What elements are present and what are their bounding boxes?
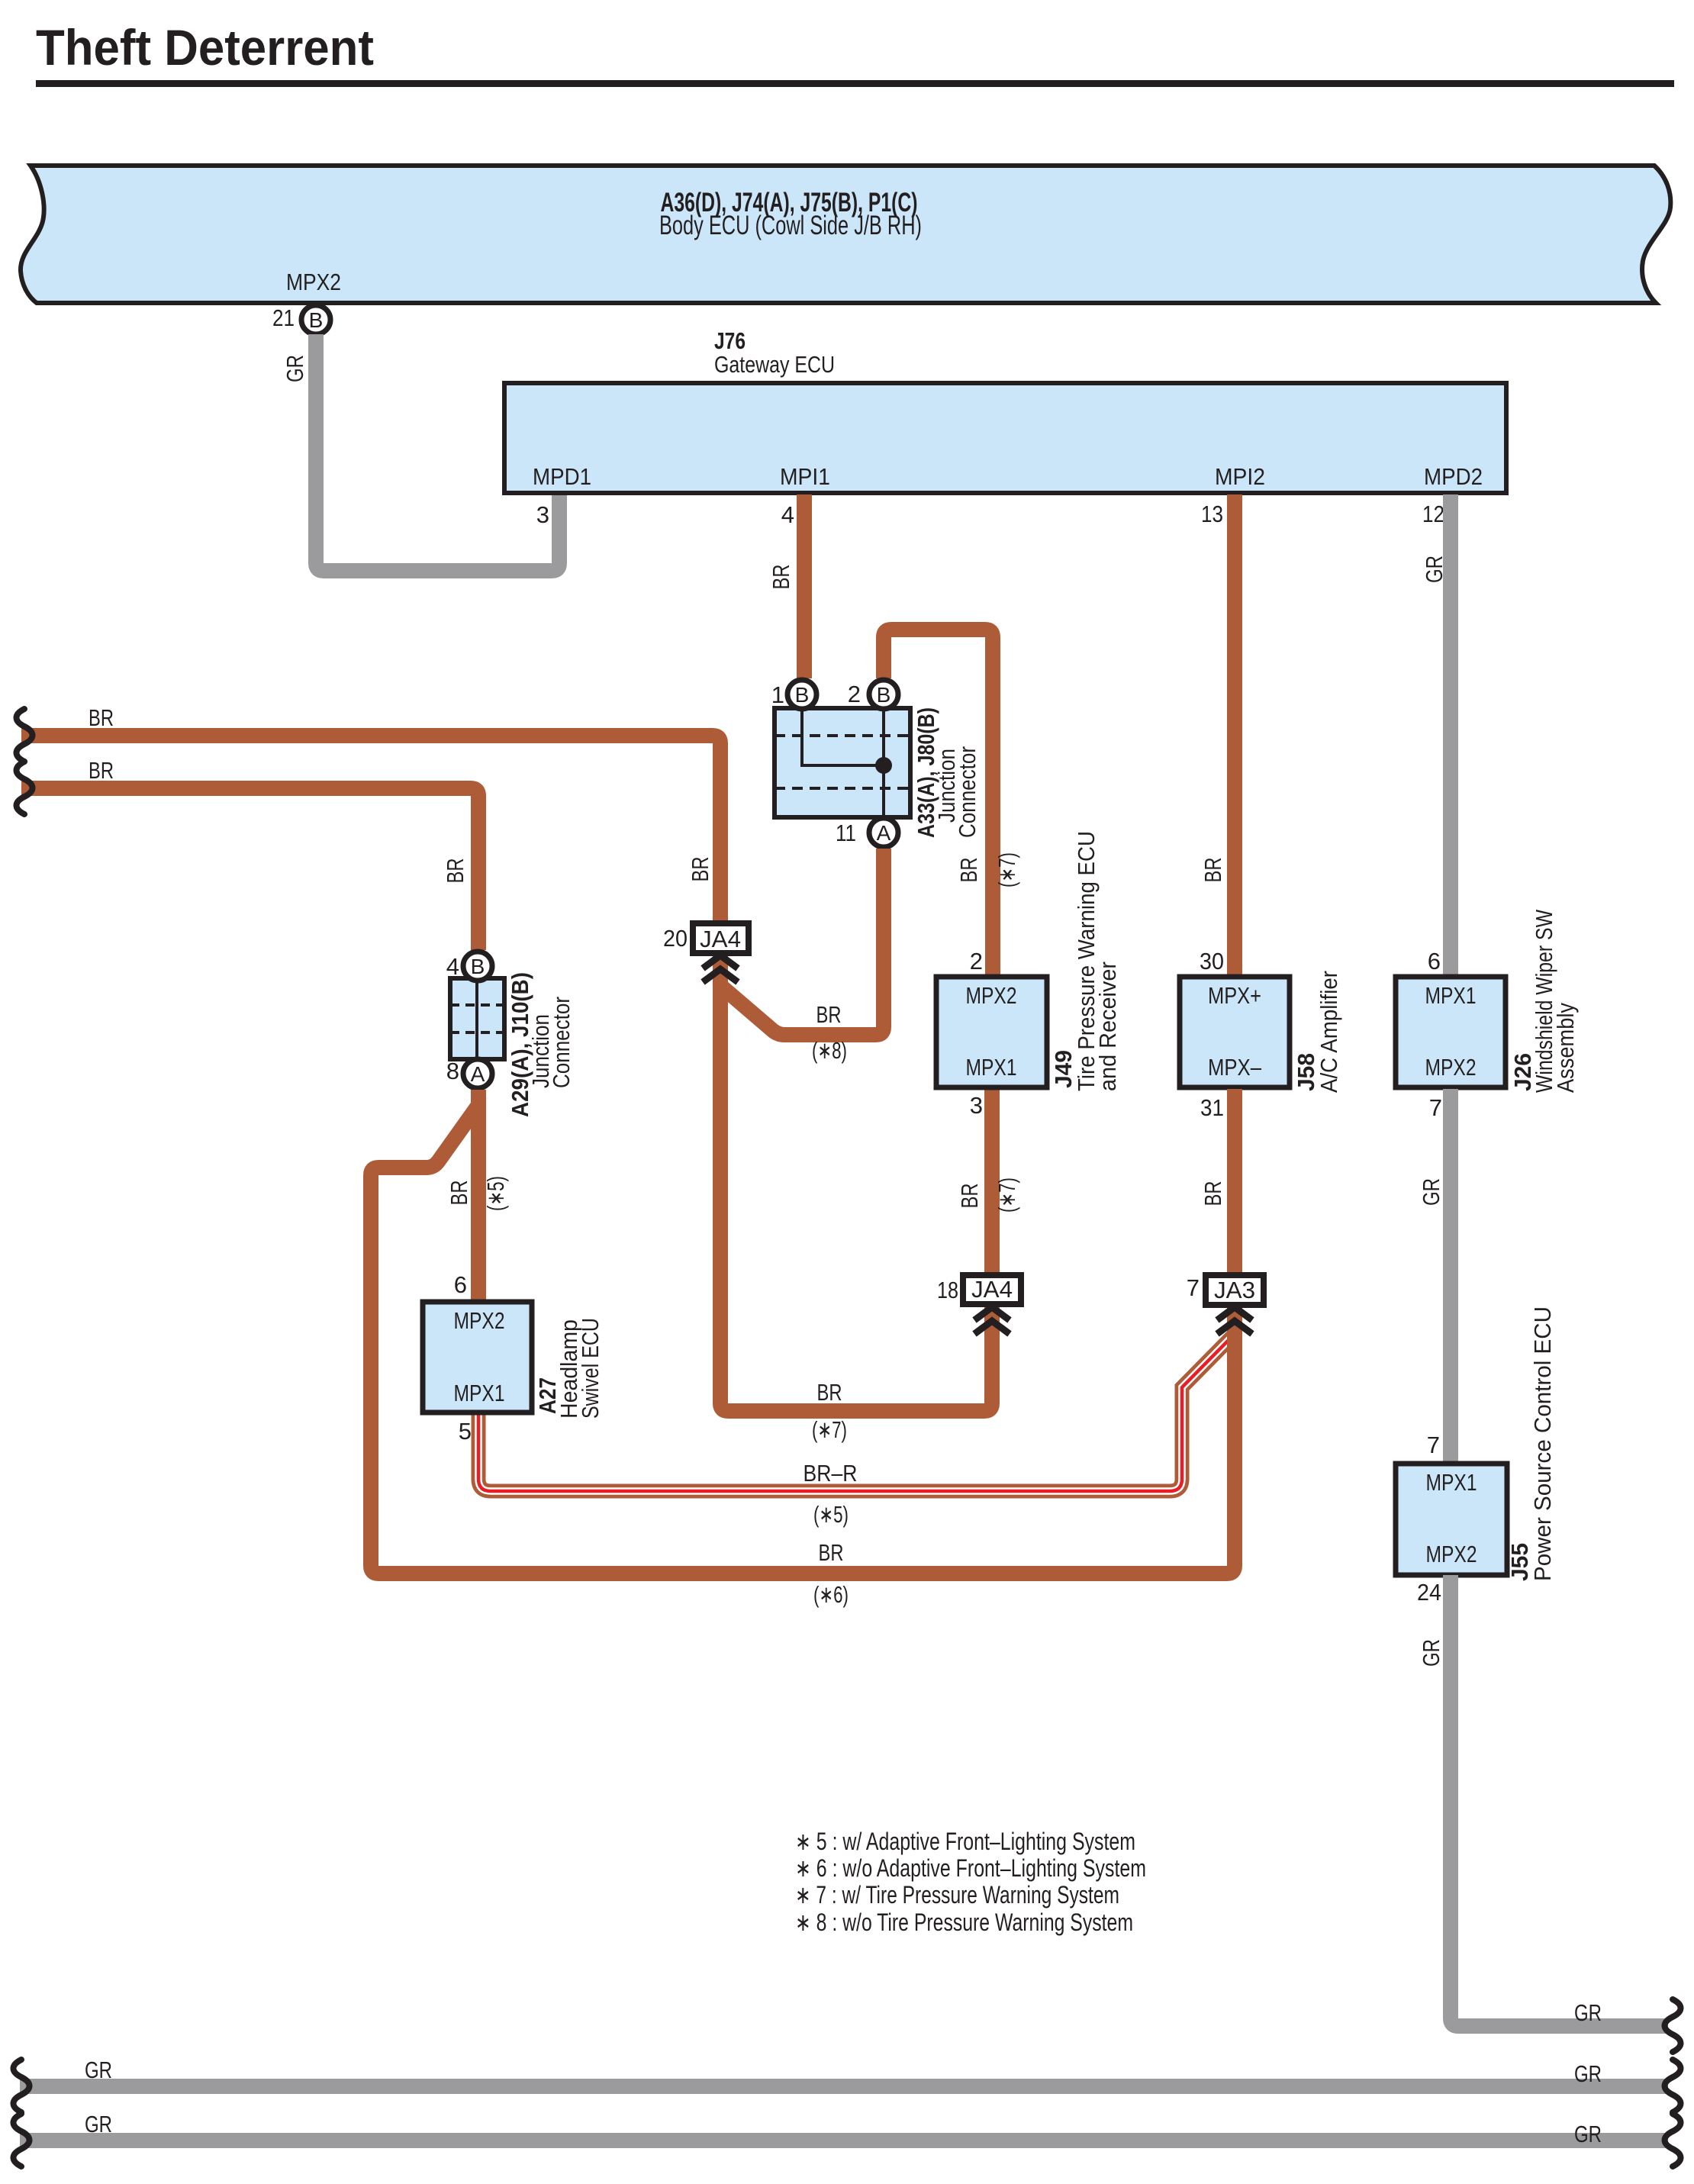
label A29(A), J10(B) Junction Connector (rotated): [507, 972, 575, 1117]
svg-text:JA4: JA4: [700, 926, 741, 952]
wire GR bottom second (full width): [20, 2133, 1668, 2148]
svg-text:MPX1: MPX1: [966, 1054, 1017, 1081]
torn end squiggle: [17, 709, 33, 762]
svg-text:Connector: Connector: [548, 997, 575, 1088]
svg-text:Swivel ECU: Swivel ECU: [577, 1318, 604, 1419]
ECU block A27 Headlamp Swivel ECU: [423, 1302, 532, 1413]
svg-text:JA3: JA3: [1214, 1277, 1255, 1303]
svg-text:GR: GR: [85, 2111, 112, 2137]
svg-text:6: 6: [454, 1271, 467, 1298]
svg-text:GR: GR: [1574, 2121, 1602, 2147]
svg-text:11: 11: [836, 820, 856, 846]
svg-text:31: 31: [1200, 1094, 1224, 1121]
label J58 A/C Amplifier (rotated): [1293, 971, 1342, 1093]
wire GR from Gateway MPD2 12 to J26 MPX1 6: [1443, 494, 1458, 977]
svg-text:Gateway ECU: Gateway ECU: [714, 351, 835, 378]
svg-text:MPX1: MPX1: [1425, 982, 1477, 1009]
ECU block J76 Gateway ECU: [504, 383, 1506, 493]
svg-text:24: 24: [1417, 1579, 1441, 1606]
pin circle A (A33 pin 11): [869, 818, 898, 847]
svg-text:3: 3: [970, 1092, 983, 1119]
label J55 Power Source Control ECU (rotated): [1506, 1306, 1556, 1581]
svg-text:BR: BR: [956, 1184, 983, 1209]
svg-text:4: 4: [781, 501, 794, 528]
svg-text:8: 8: [446, 1058, 459, 1084]
svg-text:12: 12: [1422, 501, 1444, 527]
junction connector A33(A), J80(B): [775, 708, 910, 817]
junction connector A29(A), J10(B): [450, 978, 504, 1059]
svg-text:2: 2: [970, 948, 983, 974]
svg-text:30: 30: [1200, 948, 1224, 974]
inline connector JA4 (pin 18): [963, 1275, 1021, 1304]
svg-text:4: 4: [446, 953, 459, 980]
svg-text:(∗8): (∗8): [812, 1037, 847, 1064]
svg-text:A/C Amplifier: A/C Amplifier: [1316, 971, 1342, 1093]
svg-text:(∗5): (∗5): [813, 1501, 849, 1528]
ECU block J49 Tire Pressure Warning ECU and Receiver: [936, 977, 1047, 1087]
svg-text:MPX2: MPX2: [1426, 1541, 1477, 1567]
svg-text:20: 20: [663, 925, 688, 952]
wire GR bottom first (full width): [20, 2079, 1668, 2094]
shield chevrons below JA4 18: [974, 1307, 1010, 1334]
wire BR from J58 MPX- 31 to JA3 7: [1227, 1089, 1242, 1275]
svg-text:13: 13: [1201, 501, 1223, 527]
svg-text:BR: BR: [817, 1379, 842, 1406]
svg-text:BR: BR: [1200, 1181, 1226, 1206]
svg-text:∗ 6 : w/o Adaptive Front–Light: ∗ 6 : w/o Adaptive Front–Lighting System: [795, 1854, 1146, 1882]
wire BR from Gateway MPI2 13 to J58 MPX+ 30: [1227, 494, 1242, 977]
svg-text:BR–R: BR–R: [804, 1460, 858, 1487]
svg-text:7: 7: [1429, 1094, 1442, 1121]
svg-text:5: 5: [459, 1418, 472, 1445]
inline connector JA3 (pin 7): [1206, 1275, 1264, 1305]
svg-text:Assembly: Assembly: [1552, 1003, 1579, 1093]
svg-text:BR: BR: [816, 1001, 842, 1028]
svg-text:B: B: [877, 683, 891, 707]
svg-text:1: 1: [771, 681, 784, 708]
torn end squiggle right: [1665, 2114, 1681, 2166]
svg-text:Theft Deterrent: Theft Deterrent: [36, 19, 374, 76]
wire GR from Body ECU 21(B) to Gateway MPD1 3: [316, 334, 559, 571]
svg-text:GR: GR: [1421, 556, 1448, 583]
svg-text:MPX2: MPX2: [1425, 1054, 1477, 1081]
ECU block J58 A/C Amplifier: [1180, 977, 1290, 1087]
svg-text:MPX1: MPX1: [454, 1380, 505, 1406]
ECU block J26 Windshield Wiper SW Assembly: [1396, 977, 1506, 1087]
wire BR-R from A27 MPX1 5 to JA3 (brown base): [478, 1335, 1233, 1491]
svg-text:MPI1: MPI1: [780, 463, 830, 490]
svg-text:BR: BR: [442, 858, 469, 884]
svg-text:(∗7): (∗7): [812, 1416, 847, 1443]
svg-text:∗ 8 : w/o Tire Pressure Warnin: ∗ 8 : w/o Tire Pressure Warning System: [795, 1909, 1133, 1936]
svg-text:(∗6): (∗6): [813, 1581, 849, 1608]
wire BR-R red stripe: [478, 1335, 1233, 1491]
svg-text:A: A: [877, 821, 891, 845]
wire BR loop from A33 pin 2 to J49 pin 2: [884, 630, 993, 977]
svg-text:B: B: [471, 955, 485, 978]
svg-text:GR: GR: [1418, 1178, 1444, 1206]
svg-text:3: 3: [536, 501, 549, 528]
shield chevrons below JA4 20: [703, 955, 738, 982]
label A33(A), J80(B) Junction Connector (rotated): [913, 707, 981, 838]
svg-text:MPX2: MPX2: [454, 1307, 505, 1334]
svg-text:(∗7): (∗7): [994, 852, 1020, 887]
svg-text:∗ 5 : w/ Adaptive Front–Lighti: ∗ 5 : w/ Adaptive Front–Lighting System: [795, 1828, 1135, 1855]
svg-text:(∗7): (∗7): [994, 1177, 1020, 1213]
svg-text:MPD2: MPD2: [1424, 463, 1483, 490]
svg-text:J76: J76: [714, 327, 746, 354]
wire BR diagonal from below JA4 20 to A33 pin 11: [723, 849, 884, 1035]
svg-text:GR: GR: [1418, 1639, 1444, 1667]
svg-text:Power Source Control ECU: Power Source Control ECU: [1529, 1306, 1556, 1581]
pin connector circle B (Body ECU pin 21): [301, 305, 330, 334]
svg-text:MPX2: MPX2: [966, 982, 1017, 1009]
svg-text:MPX+: MPX+: [1208, 982, 1261, 1009]
wire GR from J55 MPX2 24 down and right to edge: [1451, 1575, 1668, 2026]
torn end squiggle: [17, 762, 33, 814]
label J26 Windshield Wiper SW Assembly (rotated): [1509, 909, 1579, 1093]
svg-text:BR: BR: [955, 858, 982, 883]
torn end squiggle right: [1665, 2060, 1681, 2112]
wire BR (*6) from A29 pin 8 diagonal down-left, to bottom, to JA3: [371, 1105, 1235, 1574]
svg-text:GR: GR: [1574, 2060, 1602, 2087]
torn end squiggle left: [14, 2060, 30, 2112]
pin circle B (A33 pin 1): [787, 680, 816, 709]
wire BR left lower (from left edge) to A29 pin 4: [21, 788, 478, 950]
svg-text:MPX2: MPX2: [286, 269, 341, 295]
inline connector JA4 (pin 20): [693, 923, 749, 953]
svg-text:7: 7: [1427, 1432, 1440, 1458]
svg-text:GR: GR: [1574, 1999, 1602, 2026]
label A27 Headlamp Swivel ECU (rotated): [534, 1318, 604, 1419]
svg-text:7: 7: [1187, 1274, 1200, 1301]
svg-text:A: A: [471, 1062, 485, 1086]
label J49 Tire Pressure Warning ECU and Receiver (rotated): [1050, 831, 1121, 1091]
svg-text:BR: BR: [446, 1181, 472, 1206]
svg-text:GR: GR: [85, 2057, 112, 2083]
shield chevrons below JA3: [1217, 1307, 1252, 1334]
svg-text:BR: BR: [819, 1539, 844, 1566]
wire BR left upper (from left edge) to JA4 20: [21, 736, 720, 923]
svg-text:Body ECU (Cowl Side J/B RH): Body ECU (Cowl Side J/B RH): [659, 211, 922, 240]
svg-text:B: B: [309, 308, 324, 332]
ECU block J55 Power Source Control ECU: [1396, 1464, 1507, 1575]
svg-text:JA4: JA4: [971, 1276, 1013, 1303]
svg-text:Connector: Connector: [954, 746, 981, 838]
ECU block A36/J74/J75/P1 Body ECU bar: [21, 166, 1670, 303]
torn end squiggle left: [14, 2114, 30, 2166]
pin circle A (A29 pin 8): [463, 1059, 492, 1088]
wire GR from J26 MPX2 7 to J55 MPX1 7: [1443, 1089, 1458, 1464]
svg-text:BR: BR: [89, 704, 114, 731]
svg-text:18: 18: [937, 1277, 958, 1303]
svg-text:BR: BR: [687, 857, 713, 882]
svg-text:and Receiver: and Receiver: [1094, 962, 1121, 1091]
svg-text:∗ 7 : w/ Tire Pressure Warning: ∗ 7 : w/ Tire Pressure Warning System: [795, 1881, 1119, 1909]
svg-text:21: 21: [272, 304, 295, 331]
wire BR from JA4 20 down to JA4 18 (with BR (*7) run): [720, 953, 992, 1411]
torn end squiggle right: [1665, 1999, 1681, 2052]
svg-text:BR: BR: [1200, 858, 1226, 883]
svg-text:(∗5): (∗5): [482, 1176, 509, 1211]
svg-text:MPX–: MPX–: [1208, 1054, 1262, 1081]
wire BR from Gateway MPI1 4 to A33 pin 1: [797, 494, 812, 678]
wire BR from A29 pin 8 to A27 MPX2 6: [471, 1090, 486, 1302]
pin circle B (A29 pin 4): [463, 952, 492, 981]
title rule: [36, 80, 1674, 87]
svg-text:MPX1: MPX1: [1426, 1469, 1477, 1496]
svg-text:MPI2: MPI2: [1215, 463, 1265, 490]
svg-text:B: B: [795, 683, 810, 707]
pin circle B (A33 pin 2): [869, 680, 898, 709]
svg-text:MPD1: MPD1: [533, 463, 591, 490]
svg-text:GR: GR: [282, 355, 308, 382]
svg-text:2: 2: [848, 681, 861, 707]
svg-text:BR: BR: [89, 757, 114, 784]
svg-text:BR: BR: [768, 565, 794, 590]
wire BR from J49 MPX1 3 to JA4 18: [984, 1089, 1000, 1275]
svg-text:6: 6: [1428, 948, 1441, 974]
wire BR-R white separator: [478, 1335, 1233, 1491]
